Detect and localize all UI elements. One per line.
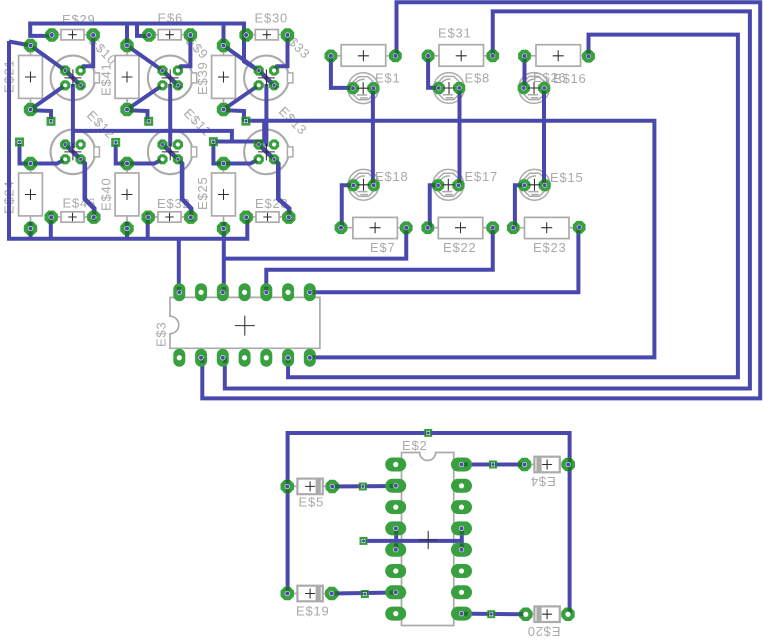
pad E$2 pin 10 (451, 585, 472, 599)
wire DIP pad10 to E$31 (225, 11, 750, 388)
diode E$19 body (297, 586, 322, 602)
wire res to E$1 left pad (331, 56, 353, 88)
wire trimmer diagonal (160, 142, 191, 221)
pad E$4 anode (518, 458, 531, 471)
resistor E$23 body (525, 217, 570, 238)
pad E$10 SW (60, 80, 70, 90)
wire E$6 right pad to NE pad (178, 35, 191, 71)
pad E$32 right (184, 211, 197, 224)
pad E$16 minus (518, 82, 530, 94)
origin cross E$8 (443, 82, 455, 94)
wire left border (9, 41, 247, 239)
via (209, 137, 218, 146)
wire E$17 to E$22 left pad (430, 185, 441, 228)
origin cross E$4 (542, 460, 552, 470)
svg-text:E$5: E$5 (299, 495, 325, 510)
pad E$25 bottom (217, 222, 230, 235)
trimmer E$11 outline (148, 130, 193, 175)
pad E$33 SE (269, 80, 279, 90)
wire E$16 to E$15 (542, 88, 546, 185)
pad E$17 plus (452, 179, 464, 191)
pad E$2 pin 2 (385, 479, 406, 493)
electrolytic E$1 outline (348, 73, 379, 104)
wire via to E$40 top pad to SW pad (116, 142, 163, 163)
origin cross E$5 (305, 481, 315, 491)
trimmer E$9 outline (148, 56, 193, 101)
svg-text:E$18: E$18 (375, 169, 409, 184)
svg-text:E$2: E$2 (402, 438, 428, 453)
pad E$41 top (120, 39, 133, 52)
electrolytic E$18 outline (348, 169, 379, 200)
wire E$24 pad stub (29, 222, 33, 238)
svg-text:E$40: E$40 (99, 177, 114, 211)
wire trimmer diagonal (63, 68, 83, 88)
wire E$21 top pad to NW pad (31, 46, 66, 71)
wire E$18 to E$7 left pad (342, 185, 355, 228)
diode E$20 body (534, 606, 559, 622)
pad E$13 NW (254, 139, 264, 149)
origin cross (358, 50, 369, 61)
origin cross E$18 (358, 179, 370, 191)
origin cross E$22 (455, 222, 466, 233)
pad E$11 NW (157, 139, 167, 149)
wire E$41 top pad to NW pad (127, 46, 163, 71)
origin cross E$29 (68, 31, 76, 39)
pad E$33 NW (254, 65, 264, 75)
pad E$3 pin 6 (282, 283, 294, 301)
pad E$20 cathode (561, 608, 574, 622)
wire E$10 to E$12 (71, 84, 75, 148)
wire E$41 bottom pad to SW pad (127, 85, 163, 109)
via (361, 590, 369, 598)
via (241, 117, 250, 126)
pad E$19 anode (281, 587, 295, 600)
pad E$46 right (87, 211, 100, 224)
svg-text:E$41: E$41 (99, 62, 114, 96)
wire E$46 left pad down (49, 213, 53, 239)
svg-text:E$7: E$7 (370, 240, 396, 255)
pad E$22 right (486, 221, 499, 234)
pad E$40 bottom (120, 222, 133, 235)
wire stub E$41 top (125, 24, 129, 46)
pad E$23 left (507, 221, 520, 234)
pad E$2 pin 9 (451, 607, 472, 621)
pad E$46 left (45, 211, 58, 224)
pad E$19 cathode (325, 587, 339, 600)
wire DIP pad5 to E$22 (266, 228, 492, 293)
pad res left (422, 50, 435, 63)
wire E$21 bottom pad to SW pad (31, 85, 66, 109)
pad E$9 SW (157, 80, 167, 90)
wire DIP pad7 to E$23 (310, 228, 579, 292)
pad E$21 top (24, 39, 37, 52)
origin cross E$41 (122, 72, 133, 83)
via (487, 610, 495, 618)
pad E$39 bottom (217, 103, 230, 116)
svg-text:E$4: E$4 (530, 474, 556, 489)
resistor resistor above E$1 body (341, 45, 386, 66)
resistor E$6 body (158, 30, 181, 40)
resistor E$30 body (255, 30, 278, 40)
pad E$5 anode (281, 480, 295, 493)
pad E$3 pin 7 (304, 283, 316, 301)
wire net row2 jog b (213, 121, 264, 142)
origin cross E$16 (528, 82, 540, 94)
resistor resistor above E$16 body (536, 45, 581, 66)
pad E$3 pin 4 (239, 283, 251, 301)
wire E$29 right pad to NE pad (81, 35, 94, 71)
pad E$5 cathode (326, 480, 340, 493)
origin cross E$33 (258, 69, 275, 86)
pad E$29 right (87, 28, 100, 41)
pad E$25 top (217, 157, 230, 170)
origin cross E$7 (370, 222, 381, 233)
pad res left (518, 50, 531, 63)
wire via to E$24 top pad to SW pad (20, 142, 66, 164)
via (144, 117, 153, 126)
pad E$41 bottom (120, 103, 133, 116)
origin cross E$10 (64, 69, 81, 86)
pad E$28 left (240, 211, 253, 224)
wire trimmer diagonal (63, 142, 94, 221)
pad E$7 right (400, 221, 413, 234)
electrolytic E$15 outline (519, 169, 550, 200)
pad E$30 right (281, 28, 294, 41)
pad E$4 cathode (562, 458, 576, 471)
wire E$2 right stub (460, 528, 464, 549)
resistor E$39 body (212, 56, 236, 99)
pad E$3 pin 12 (217, 349, 229, 367)
origin cross E$19 (305, 589, 315, 599)
pad E$6 left (142, 28, 155, 41)
pad E$9 NE (173, 65, 183, 75)
wire trimmer diagonal (257, 142, 290, 221)
pad E$3 pin 11 (239, 349, 251, 367)
wire E$9 to E$11 (168, 84, 172, 147)
pad E$7 left (335, 221, 348, 234)
svg-text:E$15: E$15 (550, 170, 584, 185)
pad E$2 pin 14 (451, 500, 472, 514)
wire E$19 right to E$2 (332, 593, 396, 594)
resistor E$41 body (115, 56, 139, 99)
electrolytic E$8 outline (434, 73, 465, 104)
trimmer E$13 outline (244, 130, 289, 175)
origin cross E$21 (25, 72, 36, 83)
origin cross E$46 (68, 213, 76, 221)
pad E$2 pin 12 (451, 543, 472, 557)
resistor E$25 body (212, 173, 236, 216)
svg-text:E$20: E$20 (527, 624, 561, 639)
pad E$17 minus (432, 179, 444, 191)
wire via to E$25 top pad to SW pad (213, 142, 258, 164)
wire E$5 E$19 left rail (288, 433, 570, 614)
svg-text:E$17: E$17 (465, 169, 499, 184)
origin cross E$11 (162, 143, 179, 160)
pad E$2 pin 15 (451, 479, 472, 493)
pad E$13 NE (269, 139, 279, 149)
svg-text:E$31: E$31 (438, 26, 472, 41)
electrolytic E$17 outline (433, 169, 464, 200)
wire trimmer diagonal (160, 68, 180, 88)
wire E$39 bottom pad to SW pad (224, 85, 259, 109)
wire E$33 to E$13 (264, 84, 268, 147)
pad E$10 NE (76, 65, 86, 75)
pad E$15 minus (518, 179, 530, 191)
wire DIP pad8 to top resistor (202, 2, 760, 398)
pad res left (325, 50, 338, 63)
pad E$1 minus (347, 82, 359, 94)
pad E$33 NE (269, 65, 279, 75)
pad E$11 SE (173, 154, 183, 164)
resistor E$7 body (353, 217, 398, 238)
pad E$2 pin 5 (385, 543, 406, 557)
origin cross E$32 (165, 213, 173, 221)
resistor E$28 body (256, 212, 279, 222)
pad E$40 top (120, 157, 133, 170)
pad E$3 pin 5 (260, 283, 272, 301)
svg-text:E$8: E$8 (465, 71, 491, 86)
pad E$2 pin 4 (385, 521, 406, 535)
resistor E$21 body (19, 56, 43, 99)
pad E$3 pin 1 (173, 283, 185, 301)
wire E$30 left pad to NW pad (244, 35, 259, 71)
origin cross E$13 (258, 143, 275, 160)
pad E$13 SW (254, 154, 264, 164)
wire DIP pad12 to res3 (288, 35, 738, 378)
pad E$10 NW (60, 65, 70, 75)
pad E$30 left (239, 28, 252, 41)
pad E$3 pin 10 (260, 349, 272, 367)
pad E$2 pin 11 (451, 564, 472, 578)
pad E$8 minus (433, 82, 445, 94)
wire E$32 left pad down (146, 213, 150, 239)
pad E$12 NE (76, 139, 86, 149)
pad E$2 pin 16 (451, 458, 472, 472)
pad E$22 left (421, 221, 434, 234)
pad E$18 minus (347, 179, 359, 191)
trimmer E$10 outline (51, 56, 96, 101)
wire E$2 left stub (394, 528, 398, 549)
pad E$23 right (573, 221, 586, 234)
origin cross E$1 (357, 82, 369, 94)
wire jog to E$6 left pad (137, 24, 148, 36)
svg-text:E$39: E$39 (195, 61, 210, 95)
via (489, 461, 497, 469)
wire trimmer diagonal (257, 68, 277, 88)
pad E$2 pin 13 (451, 521, 472, 535)
origin cross E$28 (263, 213, 271, 221)
wire long net to DIP pad 14 (246, 121, 655, 358)
pad E$6 right (184, 28, 197, 41)
wire E$5 right to E$2 (332, 484, 396, 489)
pad E$2 pin 7 (385, 585, 406, 599)
pad E$12 SW (60, 154, 70, 164)
wire stub E$39 top (222, 24, 226, 46)
origin cross E$39 (218, 72, 229, 83)
pad E$3 pin 14 (173, 349, 185, 367)
origin cross E$23 (541, 222, 552, 233)
resistor E$31 body (439, 45, 484, 66)
pad res right (486, 50, 499, 63)
pad E$2 pin 8 (385, 607, 406, 621)
origin cross E$20 (542, 609, 552, 619)
origin cross E$9 (162, 69, 179, 86)
via (47, 117, 56, 126)
pad E$33 SW (254, 80, 264, 90)
via (359, 483, 367, 491)
pad E$18 plus (368, 179, 380, 191)
wire border to E$21 top pad (9, 42, 31, 46)
pad E$39 top (217, 39, 230, 52)
svg-text:E$22: E$22 (443, 240, 477, 255)
origin cross E$17 (442, 179, 454, 191)
pad res right (582, 50, 595, 63)
origin cross E$30 (263, 31, 271, 39)
pad E$2 pin 1 (385, 458, 406, 472)
resistor E$29 body (61, 30, 84, 40)
IC E$2 body (402, 453, 454, 626)
origin cross E$40 (122, 189, 133, 200)
origin cross E$15 (529, 179, 541, 191)
resistor E$24 body (19, 173, 43, 216)
wire branch to DIP pad 1 (177, 239, 181, 293)
pad E$2 pin 3 (385, 500, 406, 514)
resistor E$22 body (438, 217, 483, 238)
pad E$9 SE (173, 80, 183, 90)
pad E$24 bottom (24, 222, 37, 235)
via (424, 429, 432, 437)
pad E$3 pin 13 (195, 349, 207, 367)
origin cross E$2 (419, 531, 437, 549)
svg-text:E$23: E$23 (533, 240, 567, 255)
origin cross (456, 50, 467, 61)
wire E$2 mid link (364, 539, 462, 543)
wire E$1 to E$18 (371, 88, 375, 185)
wire E$30 right pad to NE pad (274, 35, 287, 71)
svg-text:E$3: E$3 (154, 321, 169, 347)
pad E$11 NE (173, 139, 183, 149)
resistor E$46 body (61, 212, 84, 222)
pad E$12 NW (60, 139, 70, 149)
wire E$8 to E$17 (458, 88, 462, 186)
wire net row2 jog a (73, 131, 232, 142)
diode E$4 body (534, 457, 559, 473)
via (15, 138, 24, 147)
wire E$41 bottom pad to via (129, 110, 148, 121)
wire top bus (28, 24, 244, 36)
origin cross E$3 (235, 316, 255, 336)
wire res to E$16 left pad (523, 56, 527, 88)
svg-text:E$19: E$19 (296, 604, 330, 619)
svg-text:E$30: E$30 (255, 11, 289, 26)
wire DIP pad3 vertical (222, 222, 226, 292)
pad E$10 SE (76, 80, 86, 90)
wire E$21 bottom pad to via (33, 110, 52, 121)
origin cross E$6 (166, 31, 174, 39)
pad E$21 bottom (24, 103, 37, 116)
pad E$20 anode (519, 608, 533, 622)
wire E$40 pad stub (125, 222, 129, 238)
pad E$8 plus (453, 82, 465, 94)
via (111, 138, 120, 147)
origin cross E$12 (64, 143, 81, 160)
wire E$2 to E$20 (462, 612, 526, 617)
wire top bus left drop (30, 24, 52, 36)
wire E$39 bottom pad to via (226, 110, 245, 121)
svg-text:E$25: E$25 (195, 176, 210, 210)
wire E$2 to E$4 (462, 463, 525, 467)
pad E$28 right (282, 211, 295, 224)
pad E$9 NW (157, 65, 167, 75)
diode E$5 body (297, 479, 322, 495)
wire E$15 to E$23 left pad (515, 185, 525, 228)
pad E$3 pin 9 (282, 349, 294, 367)
pad E$3 pin 3 (217, 283, 229, 301)
origin cross E$25 (218, 189, 229, 200)
pad res right (389, 50, 402, 63)
pad E$2 pin 6 (385, 564, 406, 578)
pad E$13 SE (269, 154, 279, 164)
wire E$31 to E$8 left pad (428, 56, 439, 88)
pad E$24 top (24, 157, 37, 170)
IC E$3 body (170, 297, 320, 348)
pad E$16 plus (538, 82, 550, 94)
pad E$1 plus (367, 82, 379, 94)
resistor E$40 body (115, 173, 139, 216)
pad E$11 SW (157, 154, 167, 164)
electrolytic E$16 outline (519, 73, 550, 104)
origin cross E$24 (25, 189, 36, 200)
resistor E$32 body (158, 212, 181, 222)
trimmer E$12 outline (51, 130, 96, 175)
trimmer E$33 outline (244, 56, 289, 101)
via (360, 537, 368, 545)
pad E$15 plus (539, 179, 551, 191)
wire E$39 top pad to NW pad (224, 46, 259, 71)
pad E$3 pin 8 (304, 349, 316, 367)
pad E$32 left (142, 211, 155, 224)
svg-text:E$1: E$1 (375, 71, 401, 86)
pad E$29 left (45, 28, 58, 41)
pad E$3 pin 2 (195, 283, 207, 301)
origin cross (553, 50, 564, 61)
pad E$12 SE (76, 154, 86, 164)
svg-text:E$16: E$16 (553, 71, 587, 86)
wire DIP pad3 to E$7 (224, 228, 406, 259)
